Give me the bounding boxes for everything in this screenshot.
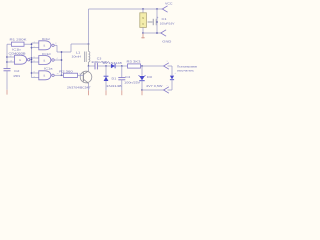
svg-text:1: 1 bbox=[167, 61, 168, 63]
wire emitter lead bbox=[88, 83, 90, 90]
junction C4 tap bbox=[121, 65, 123, 67]
junction L1 top node bbox=[88, 43, 90, 45]
junction GND stub bbox=[156, 32, 158, 34]
svg-text:8: 8 bbox=[34, 72, 35, 74]
wire R1 right lead bbox=[24, 43, 32, 45]
wire D4 to bottom bbox=[171, 80, 173, 90]
wire R3 to output terminal bbox=[141, 65, 164, 67]
wire battery bottom lead bbox=[142, 27, 144, 33]
ground symbol C4 bbox=[121, 90, 123, 95]
wire C2 bottom to ground bbox=[6, 71, 8, 90]
junction R1 to bus bbox=[31, 43, 33, 45]
wire gate D input stub 1 bbox=[32, 72, 39, 74]
svg-text:1: 1 bbox=[34, 42, 35, 44]
wire R2 left lead bbox=[62, 74, 64, 76]
inductor L1 bbox=[85, 52, 90, 63]
ground symbol D3 bbox=[141, 90, 143, 95]
wire C3 to D2 bbox=[97, 65, 111, 67]
svg-text:2: 2 bbox=[167, 85, 168, 87]
svg-text:2N3704/BC547: 2N3704/BC547 bbox=[67, 85, 91, 89]
wire gate D input stub 2 bbox=[32, 77, 39, 79]
junction D3 tap bbox=[141, 65, 143, 67]
svg-text:+: + bbox=[157, 16, 159, 20]
svg-text:IC1a: IC1a bbox=[44, 67, 53, 71]
svg-text:11: 11 bbox=[29, 58, 31, 60]
svg-text:D3: D3 bbox=[147, 75, 153, 79]
svg-text:13: 13 bbox=[10, 61, 12, 63]
wire gate B output stub bbox=[54, 44, 57, 46]
junction C1 right lead bbox=[156, 21, 158, 23]
NAND gate IC1b bbox=[15, 55, 30, 64]
svg-text:1N4148: 1N4148 bbox=[106, 84, 122, 88]
wire gate input bus bbox=[31, 43, 33, 78]
ground symbol battery bbox=[141, 34, 144, 39]
wire rail down at x88 bbox=[88, 9, 90, 44]
wire to D1 bbox=[105, 66, 107, 76]
junction gate A output bbox=[31, 59, 33, 61]
wire gate B output down bbox=[56, 45, 58, 52]
svg-text:9: 9 bbox=[34, 76, 35, 78]
wire D1 to ground bbox=[105, 81, 107, 90]
junction VCC node bbox=[156, 8, 158, 10]
wire R2 to base bbox=[78, 74, 84, 76]
resistor R3 bbox=[128, 64, 141, 68]
wire battery top lead bbox=[142, 9, 144, 13]
resistor R1 bbox=[12, 42, 25, 46]
junction battery bottom bbox=[142, 32, 144, 34]
wire gate D output stub bbox=[54, 74, 61, 76]
wire terminal to D4 bbox=[168, 65, 173, 67]
wire D3 to rail bbox=[141, 81, 143, 90]
wire bus to L1 node bbox=[71, 43, 89, 45]
wire gate B input stub 2 bbox=[32, 47, 39, 49]
wire output bus vertical bbox=[61, 52, 63, 75]
svg-text:3: 3 bbox=[55, 43, 56, 45]
wire gate C input stub 2 bbox=[32, 61, 39, 63]
svg-text:12: 12 bbox=[10, 56, 12, 58]
svg-text:V: V bbox=[142, 22, 144, 26]
svg-text:R3 3K3: R3 3K3 bbox=[127, 59, 142, 63]
svg-text:R2 360: R2 360 bbox=[59, 69, 73, 73]
NAND gate IC1d bbox=[39, 56, 54, 65]
wire output bus horizontal bbox=[57, 51, 71, 53]
capacitor C3 bbox=[95, 63, 97, 70]
svg-text:VCC: VCC bbox=[165, 1, 173, 5]
svg-text:C1: C1 bbox=[162, 17, 168, 21]
transistor T1 bbox=[80, 71, 92, 84]
junction gate C input 2 bbox=[31, 61, 33, 63]
wire C4 to ground bbox=[121, 80, 123, 91]
output terminal arrow bottom bbox=[164, 87, 169, 93]
junction gate C input 1 bbox=[31, 57, 33, 59]
svg-text:100uF/16V: 100uF/16V bbox=[160, 23, 175, 26]
wire gate C input stub 1 bbox=[32, 57, 39, 59]
svg-text:R1 200K: R1 200K bbox=[10, 37, 27, 41]
svg-text:10: 10 bbox=[57, 73, 59, 75]
svg-text:&: & bbox=[43, 58, 45, 62]
svg-text:C4: C4 bbox=[125, 75, 131, 79]
wire to VCC terminal bbox=[157, 8, 162, 10]
svg-text:C2: C2 bbox=[14, 69, 20, 73]
resistor R2 bbox=[64, 73, 78, 77]
NAND gate IC1a bbox=[39, 71, 54, 80]
svg-text:6: 6 bbox=[34, 61, 35, 63]
junction collector node bbox=[88, 65, 90, 67]
svg-text:5: 5 bbox=[34, 57, 35, 59]
junction D1 tap bbox=[105, 65, 107, 67]
svg-text:&: & bbox=[19, 58, 21, 62]
VCC terminal arrow bbox=[162, 6, 167, 12]
wire gate B input stub 1 bbox=[32, 42, 39, 44]
battery BAT1 9V bbox=[140, 13, 147, 28]
wire D2 to R3 bbox=[115, 65, 127, 67]
junction gate B input 2 bbox=[31, 47, 33, 49]
svg-text:4V7 0,5W: 4V7 0,5W bbox=[146, 84, 163, 88]
svg-text:GND: GND bbox=[162, 39, 172, 43]
svg-text:2: 2 bbox=[34, 46, 35, 48]
NAND gate IC1c bbox=[39, 41, 54, 50]
capacitor C4 bbox=[118, 78, 125, 80]
svg-text:D2 1N4148: D2 1N4148 bbox=[103, 61, 123, 65]
capacitor C2 bbox=[4, 69, 11, 71]
junction bus cross bbox=[61, 51, 63, 53]
wire collector lead bbox=[88, 66, 90, 71]
zener diode D3 bbox=[139, 75, 146, 81]
ground symbol C2 bbox=[6, 90, 8, 95]
wire to D3 bbox=[141, 66, 143, 76]
junction battery top bbox=[142, 8, 144, 10]
diode D2 bbox=[111, 64, 115, 69]
wire GND stub bbox=[143, 32, 161, 34]
svg-text:&: & bbox=[43, 74, 45, 78]
wire to C4 bbox=[121, 66, 123, 77]
GND terminal arrow bbox=[161, 30, 166, 36]
svg-text:&: & bbox=[43, 44, 45, 48]
wire R1 left lead bbox=[7, 43, 12, 45]
junction D3 bottom bbox=[141, 89, 143, 91]
svg-text:D1: D1 bbox=[112, 76, 118, 80]
diode D4 bbox=[170, 76, 174, 80]
wire input node vertical bbox=[6, 44, 8, 68]
output terminal arrow top bbox=[164, 63, 169, 69]
wire bus up jog bbox=[70, 44, 72, 52]
diode D1 bbox=[104, 76, 109, 81]
junction gate D output bbox=[61, 74, 63, 76]
svg-text:10mH: 10mH bbox=[72, 55, 82, 59]
wire gate A output stub bbox=[29, 59, 31, 61]
junction gate D input 1 bbox=[31, 72, 33, 74]
wire gate A input stub 1 bbox=[7, 56, 15, 58]
wire VCC rail bbox=[89, 8, 158, 10]
wire collector to C3 bbox=[89, 65, 96, 67]
wire VCC node down to GND stub bbox=[156, 9, 158, 33]
junction gate C output bbox=[61, 59, 63, 61]
svg-text:15N: 15N bbox=[13, 74, 20, 78]
svg-text:100n/25V: 100n/25V bbox=[124, 80, 140, 84]
wire gate C output stub bbox=[54, 59, 61, 61]
wire bottom to terminal bbox=[168, 89, 173, 91]
ground symbol D1 bbox=[105, 90, 107, 95]
wire L1 bottom lead bbox=[88, 62, 90, 66]
wire L1 top lead bbox=[88, 44, 90, 52]
svg-text:излучатель: излучатель bbox=[177, 69, 195, 73]
junction gate A input 1 bbox=[6, 56, 8, 58]
junction gate A input 2 bbox=[6, 61, 8, 63]
wire gate A input stub 2 bbox=[7, 61, 15, 63]
ground symbol emitter bbox=[88, 90, 90, 95]
wire bottom rail to terminal bbox=[142, 89, 164, 91]
svg-text:4: 4 bbox=[57, 58, 58, 60]
capacitor C1 100uF/16V bbox=[148, 16, 159, 25]
wire down to D4 bbox=[171, 66, 173, 75]
